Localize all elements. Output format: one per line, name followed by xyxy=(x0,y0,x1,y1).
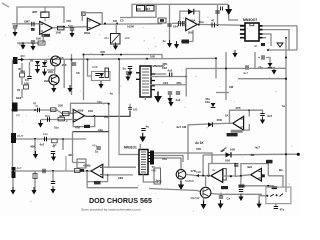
capacitor fb U3 xyxy=(188,9,193,15)
wire h124 xyxy=(188,123,225,124)
svg-text:10u: 10u xyxy=(98,128,103,132)
svg-text:OUT: OUT xyxy=(17,134,24,138)
svg-text:4u7: 4u7 xyxy=(17,166,22,170)
wire h68 xyxy=(186,67,286,69)
wire cap block right xyxy=(254,52,256,68)
wire Q3 gnd xyxy=(180,179,182,184)
wire right rail h78 xyxy=(238,78,286,80)
IC1 right pins xyxy=(151,74,155,90)
svg-text:1K: 1K xyxy=(225,113,229,117)
wire IC1 pin right xyxy=(155,73,166,75)
wire U8 bottom xyxy=(241,176,274,186)
wire output U3 xyxy=(197,23,245,26)
resistor R16 xyxy=(33,174,37,179)
capacitor C20 xyxy=(260,114,264,116)
wire U8 right to switch xyxy=(268,176,283,187)
wire output U2 xyxy=(101,23,162,25)
ground SW xyxy=(257,201,262,209)
svg-text:10K: 10K xyxy=(230,148,235,152)
arrowhead left xyxy=(196,174,199,177)
ground D2 xyxy=(42,69,47,77)
ground U4 xyxy=(38,120,43,128)
svg-text:47K: 47K xyxy=(20,70,25,74)
hatched arrow xyxy=(277,43,283,47)
transistor Q1 xyxy=(51,56,61,66)
wire vert 203 xyxy=(202,155,204,176)
wire Q2 down xyxy=(53,85,55,88)
svg-text:DOD CHORUS 565: DOD CHORUS 565 xyxy=(89,198,152,205)
op-amp U8 (points left) xyxy=(251,168,262,181)
wire top link xyxy=(156,4,228,10)
node dot rail xyxy=(285,78,287,80)
node dot U8 out xyxy=(240,175,242,177)
scan speckle noise xyxy=(5,17,292,212)
ground T1 xyxy=(113,43,118,51)
resistor blob U4 fb xyxy=(84,125,90,128)
svg-text:1M: 1M xyxy=(42,10,47,14)
svg-text:4u: 4u xyxy=(212,168,216,172)
wire IC2 bottom xyxy=(268,49,297,51)
svg-text:182: 182 xyxy=(118,176,123,180)
wire h92 xyxy=(216,92,229,94)
gray bar below U5 xyxy=(231,130,243,133)
arrow down bl xyxy=(33,151,38,159)
wire into loop left xyxy=(120,17,132,19)
blob right of loop xyxy=(160,19,164,22)
capacitor C25 xyxy=(239,190,243,192)
op-amp U3 xyxy=(186,18,198,31)
node dot U6 inv xyxy=(107,174,109,176)
ground Q2 xyxy=(51,85,56,93)
pot box right of U7 xyxy=(223,169,226,180)
op-amp U6 xyxy=(91,164,103,178)
box U2 corner xyxy=(82,12,86,15)
svg-text:2ab: 2ab xyxy=(44,79,49,83)
svg-text:47u: 47u xyxy=(162,157,167,161)
wire U4 fb bottom xyxy=(73,116,95,126)
wire left bus vert xyxy=(12,60,14,172)
svg-text:4u2: 4u2 xyxy=(168,68,173,72)
capacitor on top rail xyxy=(221,7,223,11)
wire main supply rail xyxy=(20,58,216,59)
IC2 left pins xyxy=(240,26,245,38)
wire L mid right xyxy=(215,58,217,78)
svg-text:47K: 47K xyxy=(236,106,241,110)
capacitor C5 xyxy=(95,74,99,76)
wire C11 xyxy=(258,58,270,64)
svg-text:10u: 10u xyxy=(205,100,210,104)
capacitor C16 xyxy=(38,108,40,112)
node dot U8 bottom xyxy=(267,185,269,187)
resistor R3 xyxy=(38,41,45,45)
svg-text:10K: 10K xyxy=(157,180,162,184)
scan artifact top-left xyxy=(2,3,9,7)
svg-text:MN31O1: MN31O1 xyxy=(124,146,137,150)
wire left col xyxy=(22,62,30,98)
wire U8 output left xyxy=(235,175,251,177)
wire Q3 right xyxy=(186,174,196,175)
node dot U4 out xyxy=(93,115,95,117)
capacitor C6 xyxy=(167,24,171,26)
svg-text:4u 1K: 4u 1K xyxy=(194,141,204,145)
node dot right xyxy=(285,37,287,39)
svg-text:(n): (n) xyxy=(16,113,20,117)
svg-text:1M: 1M xyxy=(229,85,234,89)
resistor blob U6 out xyxy=(80,169,84,172)
node dot rail1 xyxy=(102,54,104,56)
wire bus2 xyxy=(154,156,183,163)
wire Q4 gnd xyxy=(203,198,205,205)
resistor R17 xyxy=(94,181,101,184)
svg-text:10K: 10K xyxy=(150,55,155,59)
node dot U5 xyxy=(248,109,250,111)
capacitor Cx left xyxy=(27,77,31,79)
ground U3 fb xyxy=(174,41,179,49)
ground C1 xyxy=(12,29,17,37)
wire vert 35 xyxy=(34,139,36,154)
IC1 left pins xyxy=(136,73,140,80)
node dot j5 xyxy=(34,109,36,111)
svg-text:47K: 47K xyxy=(151,169,156,173)
svg-text:C0J: C0J xyxy=(19,42,25,46)
squiggle xyxy=(221,148,227,152)
svg-text:102: 102 xyxy=(104,115,109,119)
verticals bus xyxy=(109,94,139,169)
wire vert 83 xyxy=(83,54,85,100)
connector CN1 xyxy=(150,151,154,165)
wire U7 out xyxy=(196,175,211,177)
svg-text:45K: 45K xyxy=(20,54,25,58)
node dot mid xyxy=(230,175,232,177)
wire vert 226 xyxy=(225,52,227,100)
wire U3 bottom fb xyxy=(181,30,193,42)
ground D1 xyxy=(35,66,40,74)
resistor R13 xyxy=(58,117,65,121)
wire U5 bottom right xyxy=(244,124,250,130)
ground C13 xyxy=(127,69,132,77)
svg-text:4u: 4u xyxy=(146,125,150,129)
svg-text:4u: 4u xyxy=(163,39,167,43)
wire vert13 xyxy=(12,178,14,190)
U5 input marks xyxy=(241,119,243,127)
wire vert 90 xyxy=(88,59,92,76)
svg-text:MN3OO7: MN3OO7 xyxy=(243,18,257,22)
svg-text:C5: C5 xyxy=(60,56,64,60)
ground C12 xyxy=(125,74,130,82)
svg-text:tuna: tuna xyxy=(190,197,195,200)
wire h152 xyxy=(203,153,298,156)
svg-text:4u7: 4u7 xyxy=(243,71,248,75)
ground Q4b xyxy=(218,200,224,209)
wire U4 feedback top xyxy=(71,103,109,113)
wire U4 inv xyxy=(41,119,74,121)
svg-text:47: 47 xyxy=(52,145,56,149)
svg-text:C2K: C2K xyxy=(92,65,98,69)
wire cluster loop xyxy=(92,72,111,81)
capacitor C19 xyxy=(141,129,145,131)
wire vert pre U3 xyxy=(169,10,171,43)
wire feedback loop U1 xyxy=(17,7,64,27)
svg-text:10K: 10K xyxy=(225,159,230,163)
capacitor C18 xyxy=(45,137,47,141)
blob below U8 xyxy=(239,185,245,188)
svg-text:10u: 10u xyxy=(54,126,59,130)
svg-text:42K: 42K xyxy=(68,153,74,157)
svg-text:103: 103 xyxy=(125,36,130,40)
capacitor C11 xyxy=(262,55,264,59)
wire C103 top xyxy=(129,104,131,108)
wire right supply vert xyxy=(285,38,287,192)
node dot rail2 xyxy=(120,54,122,56)
IC3 inner hatch xyxy=(141,152,146,172)
node dot j10 xyxy=(202,175,204,177)
resistor R2 feedback xyxy=(41,12,49,18)
svg-text:183: 183 xyxy=(133,108,138,112)
capacitor C14 xyxy=(168,92,172,94)
capacitor fb U7 xyxy=(234,164,239,166)
wire U8 loop xyxy=(241,164,268,177)
svg-text:4u7: 4u7 xyxy=(40,143,45,147)
svg-text:C8: C8 xyxy=(113,19,117,23)
wire IC2 pin to right vert 3 xyxy=(263,34,272,46)
svg-text:10K: 10K xyxy=(58,104,63,108)
svg-text:D1: D1 xyxy=(30,59,34,63)
ground C14 xyxy=(167,95,172,103)
wire bottom bus xyxy=(14,170,92,172)
svg-text:Scan provided by www.schematic: Scan provided by www.schematics.com xyxy=(81,208,141,212)
svg-text:4u8: 4u8 xyxy=(247,165,252,169)
blob under U7 xyxy=(221,186,228,189)
ground g3 xyxy=(168,99,173,107)
jack J2 xyxy=(12,103,18,112)
svg-text:4558b: 4558b xyxy=(83,163,91,167)
op-amp U1 xyxy=(40,21,53,34)
wire loop top mid xyxy=(132,4,156,17)
svg-text:10u: 10u xyxy=(43,132,48,136)
ground b2 xyxy=(31,187,36,195)
svg-text:47: 47 xyxy=(33,102,37,106)
U4 input marks xyxy=(74,113,76,120)
capacitor C24 xyxy=(96,147,100,149)
svg-text:10K: 10K xyxy=(196,170,201,174)
diode D8 xyxy=(226,152,231,157)
wire SW bottom xyxy=(259,196,266,204)
pot box P5 xyxy=(77,159,86,168)
svg-text:4u3: 4u3 xyxy=(176,98,181,102)
resistor R10 xyxy=(24,85,29,89)
node dot j7 xyxy=(118,58,120,60)
node dot row1 xyxy=(185,76,187,78)
svg-text:4u7 1M: 4u7 1M xyxy=(176,125,187,129)
IC2 notch xyxy=(250,23,254,25)
svg-text:45K: 45K xyxy=(217,118,223,122)
wire U6 right xyxy=(103,174,133,176)
node dot j4 xyxy=(71,59,73,61)
supply arrow P2 xyxy=(232,50,237,58)
trimmer T1 box xyxy=(111,34,121,45)
svg-text:102K: 102K xyxy=(127,25,135,29)
resistor R12b xyxy=(63,112,70,116)
diode D1 xyxy=(35,61,40,65)
jack J4 xyxy=(12,167,16,178)
svg-text:C1: C1 xyxy=(44,59,48,63)
svg-text:xK: xK xyxy=(254,44,258,48)
node dot b xyxy=(52,170,54,172)
wire IC3 bottom xyxy=(140,144,158,182)
node dot j8 xyxy=(87,58,89,60)
node dot U6 out xyxy=(86,170,88,172)
transistor Q3 xyxy=(176,170,186,180)
svg-text:5A5b8: 5A5b8 xyxy=(185,179,194,183)
svg-text:4u7: 4u7 xyxy=(267,114,273,118)
wire Q4 bus xyxy=(149,189,262,197)
svg-text:47u: 47u xyxy=(280,208,285,212)
switch internals xyxy=(270,194,283,197)
wire IC2 pin to right vert 1 xyxy=(263,26,298,50)
diode D6 xyxy=(211,103,216,107)
capacitor C2 xyxy=(70,28,74,30)
node blob right xyxy=(297,153,300,156)
wire U5 output left xyxy=(225,122,233,124)
ground C21 xyxy=(51,154,56,162)
wire vert 66 xyxy=(65,156,67,171)
svg-text:3M: 3M xyxy=(251,153,256,157)
capacitor C21 xyxy=(51,152,55,154)
wire h131 xyxy=(73,131,109,133)
svg-text:2u: 2u xyxy=(123,67,127,71)
U8 base pin blob xyxy=(262,174,265,177)
wire cap C7 vert xyxy=(218,4,229,25)
op-amp U7 xyxy=(211,169,223,182)
Q4 internals xyxy=(203,189,209,196)
svg-text:4M7: 4M7 xyxy=(32,10,38,14)
wire vert 71 xyxy=(71,54,73,95)
capacitor C17 xyxy=(48,117,50,121)
wire inv input U1 down xyxy=(17,34,43,43)
wire U5 loop xyxy=(230,110,250,123)
capacitor C4 xyxy=(72,63,76,65)
wire bus3 xyxy=(154,158,181,170)
capacitor row1 xyxy=(170,73,172,77)
ground mid xyxy=(67,85,72,93)
node dot j3 xyxy=(83,54,85,56)
ground C20 xyxy=(260,117,265,125)
svg-text:4K7: 4K7 xyxy=(59,114,65,118)
wire to trimmer T1 xyxy=(115,24,118,47)
IC3 right pins xyxy=(148,153,151,162)
transistor Q2 xyxy=(49,75,59,85)
wire IC1 bottom xyxy=(144,97,146,100)
pot box P6 xyxy=(154,168,161,184)
diode D7 xyxy=(208,122,212,127)
svg-text:4558: 4558 xyxy=(78,109,84,113)
svg-text:45K: 45K xyxy=(30,145,36,149)
wire vert 53b xyxy=(52,171,54,181)
svg-text:104: 104 xyxy=(173,25,178,29)
svg-text:Cx: Cx xyxy=(227,197,231,201)
diode D4 xyxy=(99,73,104,77)
node dot j6 xyxy=(62,138,64,140)
resistor R7a xyxy=(137,6,145,12)
svg-text:1u: 1u xyxy=(282,104,286,108)
IC3 body xyxy=(139,150,148,175)
supply arrow P1 xyxy=(225,5,232,15)
wire feedback loop U2 xyxy=(82,13,102,25)
node dot j1 xyxy=(104,23,106,25)
capacitor C7 xyxy=(215,11,219,13)
capacitor C22 xyxy=(43,169,45,173)
IC2 MN3007 body xyxy=(245,23,259,41)
svg-text:47K: 47K xyxy=(75,126,80,130)
svg-text:47u: 47u xyxy=(104,36,109,40)
svg-text:47K: 47K xyxy=(66,19,71,23)
switch box SW1 xyxy=(266,187,291,204)
IC2 right pins xyxy=(259,26,263,38)
supply arrow P4 xyxy=(154,92,162,103)
wire input U4 xyxy=(18,110,74,114)
node dot j15 xyxy=(12,138,14,140)
capacitor C3 xyxy=(31,41,35,43)
IC1 body xyxy=(140,66,151,97)
IC1 inner hatch xyxy=(142,69,149,93)
ground C6 xyxy=(167,40,172,48)
wire output U1 xyxy=(12,24,87,28)
node dot h152 xyxy=(285,153,287,155)
ground D4 xyxy=(98,81,103,89)
svg-text:47: 47 xyxy=(211,19,215,23)
trimmer T1 wiper xyxy=(112,35,120,44)
svg-text:47K: 47K xyxy=(196,147,201,151)
resistor box out U1 xyxy=(58,26,65,30)
wire vert 35b xyxy=(34,171,36,190)
resistor box right of loop xyxy=(158,18,166,23)
U8 input marks xyxy=(259,172,261,179)
node dot j11 xyxy=(285,57,287,59)
wire vert 72 xyxy=(73,132,87,163)
wire U7 fb xyxy=(209,164,236,177)
resistor R14 xyxy=(52,139,58,143)
capacitor C103 xyxy=(128,108,132,110)
svg-text:206: 206 xyxy=(188,31,193,35)
svg-text:22K: 22K xyxy=(48,70,53,74)
blob under IC2 xyxy=(261,43,265,46)
op-amp U2 xyxy=(87,18,100,30)
svg-text:47K: 47K xyxy=(100,50,105,54)
ground C25 xyxy=(238,194,243,202)
ground C19 xyxy=(139,133,146,143)
wire vert 63 xyxy=(62,139,64,150)
node dot xyxy=(267,49,269,51)
wire h85 xyxy=(150,69,186,97)
jack J3 xyxy=(11,133,16,143)
transistor Q4 xyxy=(200,187,211,198)
svg-text:4u7: 4u7 xyxy=(255,146,260,150)
svg-text:1K8: 1K8 xyxy=(16,96,22,100)
svg-text:10K: 10K xyxy=(56,31,62,35)
svg-text:C5: C5 xyxy=(120,19,124,23)
node dot U2 out xyxy=(116,23,118,25)
capacitor C12 xyxy=(126,72,130,74)
LED blob xyxy=(272,186,278,189)
wire vert 119 xyxy=(118,59,120,93)
wire out bus xyxy=(16,138,86,140)
ground b3 xyxy=(50,186,55,194)
diode D2 xyxy=(42,62,47,66)
capacitor series out U3 xyxy=(212,23,215,28)
wire input U3 xyxy=(172,22,186,24)
wire U4 output xyxy=(85,111,131,117)
wire P1 xyxy=(229,15,238,20)
